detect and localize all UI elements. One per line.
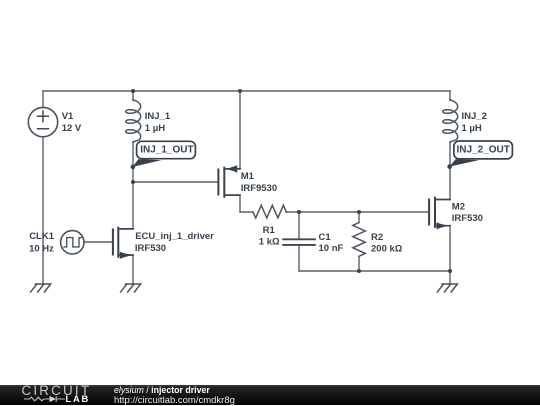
label ECU value [135,231,214,254]
ground under ECU [121,284,141,292]
wire R2 leads [358,212,360,271]
svg-text:M1: M1 [241,171,255,182]
node dot M2 source [448,269,452,273]
svg-text:INJ_1: INJ_1 [145,111,171,122]
wire ECU source to ground [132,255,134,284]
label INJ_1 value [145,111,171,134]
svg-text:12 V: 12 V [62,123,82,134]
svg-text:R1: R1 [263,225,276,236]
resistor R2 [353,223,365,257]
node dot R2 bottom [357,269,361,273]
svg-text:CLK1: CLK1 [29,231,55,242]
svg-text:M2: M2 [452,202,465,213]
wire R1 to C1 to R2 to M2 gate [240,211,429,213]
wire M1 drain down [239,195,241,212]
voltage source V1 [28,107,57,136]
svg-text:1 µH: 1 µH [145,123,165,134]
label CLK1 value [29,231,55,254]
resistor R1 [253,205,286,218]
inductor INJ_2 [443,99,458,142]
transistor ECU_inj_1_driver IRF530 [113,228,133,259]
node dot R1-C1 [297,210,301,214]
CircuitLab logo [22,384,92,397]
node dot top M1 [238,89,242,93]
wire V1 bottom to ground [42,137,44,284]
wire M2 drain up [449,142,451,200]
label R1 value [259,225,280,247]
node dot R2 top [357,210,361,214]
svg-text:IRF530: IRF530 [452,213,483,224]
wire INJ_1 bottom to ECU drain [132,142,134,230]
capacitor C1 [283,239,315,245]
svg-text:C1: C1 [319,232,332,243]
svg-text:INJ_2_OUT: INJ_2_OUT [457,145,510,156]
footer bar [0,385,540,405]
node flag INJ_2_OUT [447,141,512,169]
label C1 value [319,232,344,254]
svg-text:V1: V1 [62,111,74,122]
svg-text:ECU_inj_1_driver: ECU_inj_1_driver [135,231,214,242]
node flag INJ_1_OUT [131,141,196,169]
svg-text:INJ_1_OUT: INJ_1_OUT [140,145,193,156]
wire M1 source up [239,91,241,169]
label V1 value [62,111,82,134]
wire CLK1 to ECU gate [84,241,113,243]
svg-text:IRF9530: IRF9530 [241,183,277,194]
wire top rail [43,90,450,92]
svg-text:IRF530: IRF530 [135,243,166,254]
node junction M1 gate [131,180,135,184]
wire M2 source to ground [449,226,451,284]
label M2 value [452,202,483,224]
label M1 value [241,171,277,194]
wire INJ_2 top stub [449,91,451,101]
svg-text:10 Hz: 10 Hz [29,243,54,254]
inductor INJ_1 [126,99,141,142]
label INJ_2 value [462,111,487,134]
svg-text:1 µH: 1 µH [462,123,482,134]
label R2 value [371,232,403,255]
footer url [114,396,235,405]
svg-text:INJ_2: INJ_2 [462,111,487,122]
svg-text:200 kΩ: 200 kΩ [371,244,403,255]
wire INJ_1 top stub [132,91,134,101]
ground under M2 [437,284,457,292]
clock source CLK1 [61,231,84,254]
svg-text:R2: R2 [371,232,383,243]
footer title [114,386,210,395]
wire bottom rail [299,270,450,272]
node dot top INJ_1 [131,89,135,93]
transistor M1 IRF9530 [218,165,240,197]
svg-text:10 nF: 10 nF [319,243,344,254]
transistor M2 IRF530 [429,198,450,230]
wire V1 top lead [42,91,44,108]
wire M1 gate [133,181,218,183]
ground under V1 [31,284,51,292]
svg-text:1 kΩ: 1 kΩ [259,236,280,247]
wire C1 leads [298,212,300,271]
